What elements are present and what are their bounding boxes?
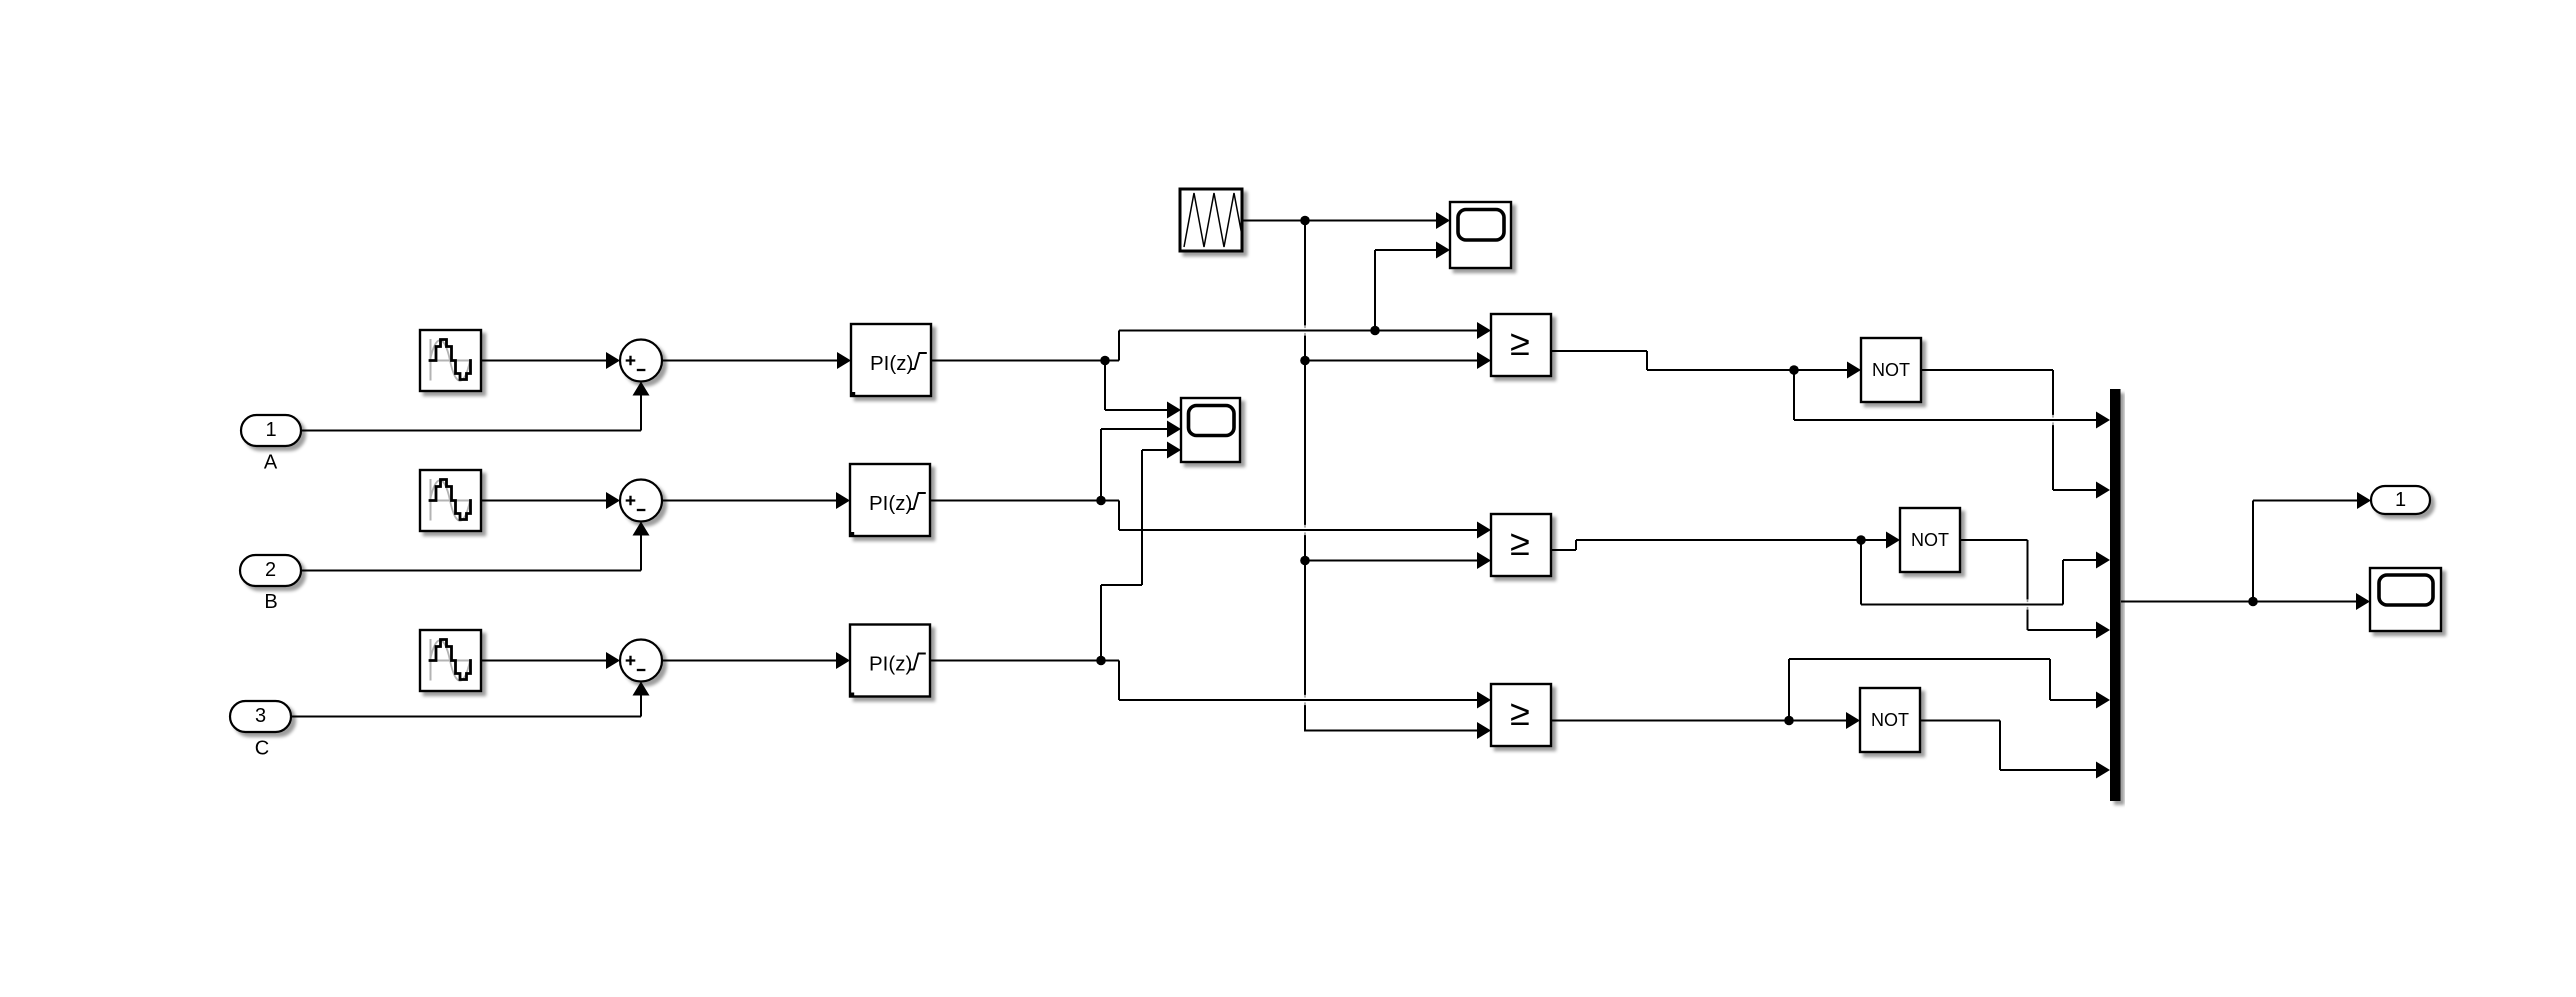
svg-text:B: B <box>264 591 277 613</box>
sum block B (+/-) <box>620 480 662 522</box>
logical NOT block (phase A) <box>1861 338 1921 402</box>
wire: NOT A output to mux input 2 (with crossover gap) <box>1921 369 2053 371</box>
wire: relational B output to NOT B <box>1551 549 1576 551</box>
svg-text:NOT: NOT <box>1871 710 1909 730</box>
svg-text:≥: ≥ <box>1510 692 1530 733</box>
junction carrier to relational A <box>1300 356 1310 366</box>
wire: branch up to output port 1 <box>2252 501 2254 602</box>
input port 3 <box>230 701 291 732</box>
wire: input port 1 to sum A lower input <box>301 430 641 432</box>
svg-text:NOT: NOT <box>1911 530 1949 550</box>
wire: input port 2 to sum B lower input <box>301 570 641 572</box>
input port 2 <box>240 555 301 586</box>
svg-text:PI(z): PI(z) <box>869 492 912 515</box>
wire: input port 3 to sum C lower input <box>291 716 641 718</box>
svg-text:C: C <box>255 738 269 760</box>
mux (6-input vertical bar) <box>2110 389 2121 801</box>
svg-text:1: 1 <box>2395 489 2406 511</box>
output port 1 <box>2371 486 2430 514</box>
junction on PI B output <box>1096 496 1106 506</box>
junction carrier to relational B <box>1300 556 1310 566</box>
wire: PI(z) B output <box>930 500 1119 502</box>
PI(z) controller C <box>850 625 930 697</box>
logical NOT block (phase C) <box>1860 688 1920 752</box>
wire: NOT B output to mux input 4 (with crossover gap) <box>1961 539 2028 541</box>
scope (output, right) <box>2370 568 2441 631</box>
junction on carrier wire <box>1300 216 1310 226</box>
junction before NOT B <box>1856 535 1866 545</box>
wire: carrier vertical distribution line (with crossover gaps) <box>1304 221 1306 326</box>
junction before NOT C <box>1784 716 1794 726</box>
sine wave source C <box>420 630 481 691</box>
wire: branch up to scope input 2 <box>1100 429 1102 501</box>
wire: source A to sum A <box>481 360 607 362</box>
wire: carrier to relational A input 2 <box>1305 360 1477 362</box>
wire: PI(z) A output <box>931 360 1119 362</box>
wire: relational A output to NOT A <box>1551 350 1647 352</box>
svg-text:PI(z): PI(z) <box>869 653 912 676</box>
wire: up to top scope input 2 <box>1374 250 1376 331</box>
wire: PI(z) C output <box>930 660 1119 662</box>
sum block A (+/-) <box>620 340 662 382</box>
relational operator >= (phase B) <box>1491 514 1551 576</box>
sine wave source B <box>420 470 481 531</box>
scope (3-input, middle) <box>1181 398 1240 462</box>
wire: branch down to scope input 1 <box>1104 361 1106 411</box>
wire: PI A signal up to relational A input 1 <box>1118 331 1120 361</box>
wire: PI B signal to relational B input 1 <box>1118 501 1120 531</box>
wire: PI C signal to relational C input 1 <box>1118 661 1120 701</box>
wire: sum C to PI(z) C <box>662 660 836 662</box>
svg-text:2: 2 <box>265 559 276 581</box>
relational operator >= (phase C) <box>1491 684 1551 746</box>
input port 1 <box>241 415 301 446</box>
wire: sum B to PI(z) B <box>662 500 836 502</box>
svg-text:NOT: NOT <box>1872 360 1910 380</box>
wire: sum A to PI(z) A <box>662 360 837 362</box>
wire: branch up and to mux input 5 <box>1788 659 1790 721</box>
PI(z) controller A <box>851 324 931 396</box>
wire: source C to sum C <box>481 660 607 662</box>
wire: branch to mux input 1 <box>1793 370 1795 420</box>
scope (2-input, top) <box>1450 202 1511 268</box>
logical NOT block (phase B) <box>1900 508 1960 572</box>
wire: source B to sum B <box>481 500 607 502</box>
svg-text:1: 1 <box>265 419 276 441</box>
svg-text:≥: ≥ <box>1510 522 1530 563</box>
wire: mux output to scope <box>2121 601 2356 603</box>
wire: branch down and to mux input 3 <box>1860 540 1862 605</box>
junction on PI C output <box>1096 656 1106 666</box>
PI(z) controller B <box>850 464 930 536</box>
svg-text:PI(z): PI(z) <box>870 352 913 375</box>
svg-text:≥: ≥ <box>1510 322 1530 363</box>
wire: triangle generator to top scope input 1 <box>1242 220 1436 222</box>
wire: relational C output to NOT C <box>1551 720 1846 722</box>
junction to top scope <box>1370 326 1380 336</box>
triangle wave (carrier) generator <box>1180 189 1242 251</box>
junction on PI A output <box>1100 356 1110 366</box>
svg-text:A: A <box>264 452 278 474</box>
wire: carrier to relational C input 2 <box>1305 730 1477 732</box>
sum block C (+/-) <box>620 640 662 682</box>
wire: NOT C output to mux input 6 <box>1921 720 2000 722</box>
sine wave source A <box>420 330 481 391</box>
junction before NOT A <box>1789 365 1799 375</box>
relational operator >= (phase A) <box>1491 314 1551 376</box>
wire: carrier to relational B input 2 <box>1305 560 1477 562</box>
junction on mux output <box>2248 597 2258 607</box>
wire: branch up to scope input 3 <box>1100 585 1102 661</box>
svg-text:3: 3 <box>255 705 266 727</box>
